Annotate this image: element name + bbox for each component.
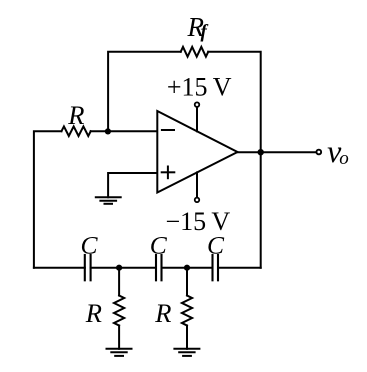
wire noninverting input	[108, 173, 157, 197]
resistor Rf	[181, 47, 209, 57]
op-amp plus sign	[162, 171, 175, 173]
ground at noninverting input	[96, 196, 121, 198]
wire feedback top-right segment	[208, 52, 261, 268]
node D (ladder junction 2)	[184, 265, 190, 271]
wire node1 to R1	[118, 268, 120, 296]
wire R1 to ground	[118, 326, 120, 349]
wire node2 to R2	[186, 268, 188, 296]
svg-text:o: o	[339, 148, 349, 169]
wire bottom ladder segment 3	[162, 267, 213, 269]
node C (ladder junction 1)	[116, 265, 122, 271]
wire bottom ladder segment 4	[218, 267, 261, 269]
wire feedback top-left segment	[108, 52, 181, 131]
wire +15V supply	[196, 107, 198, 131]
wire R2 to ground	[186, 326, 188, 349]
wire to inverting input	[91, 130, 158, 132]
svg-text:C: C	[207, 230, 225, 259]
resistor R2 (vertical)	[182, 296, 192, 326]
op-amp U1	[157, 111, 237, 193]
svg-text:C: C	[81, 230, 99, 259]
terminal -15V	[195, 198, 200, 203]
wire -15V supply	[196, 172, 198, 197]
ground under R2	[174, 348, 199, 350]
capacitor C2	[155, 255, 157, 280]
terminal vo	[316, 150, 321, 155]
node B (output junction)	[258, 149, 264, 155]
ground under R1	[107, 348, 132, 350]
capacitor C3	[211, 255, 213, 280]
wire bottom ladder segment 1	[34, 267, 85, 269]
svg-text:R: R	[154, 298, 171, 328]
svg-text:C: C	[150, 230, 168, 259]
svg-text:R: R	[85, 298, 102, 328]
wire left branch	[34, 131, 62, 268]
capacitor C1	[84, 255, 86, 280]
resistor R1 (vertical)	[114, 296, 124, 326]
wire output	[238, 151, 316, 153]
svg-text:+15 V: +15 V	[167, 72, 232, 101]
node A (inverting input junction)	[105, 128, 111, 134]
resistor R (left)	[62, 126, 91, 136]
terminal +15V	[195, 102, 200, 107]
svg-text:R: R	[67, 100, 84, 130]
wire bottom ladder segment 2	[91, 267, 156, 269]
op-amp minus sign	[162, 129, 174, 131]
